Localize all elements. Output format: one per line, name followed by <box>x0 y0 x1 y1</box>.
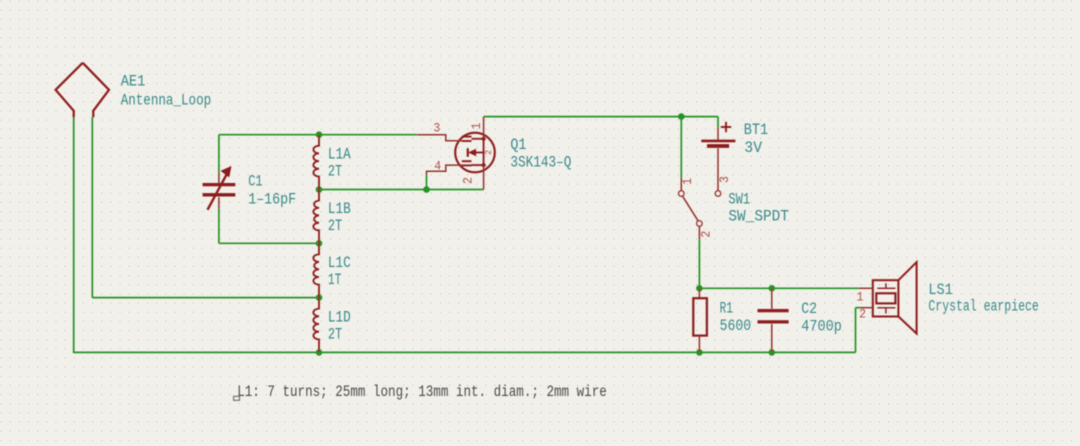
inductor L1B <box>313 190 319 244</box>
capacitor C2 <box>758 288 789 352</box>
svg-text:2: 2 <box>462 177 476 184</box>
resistor R1 <box>693 288 707 352</box>
wire Q1 drain top rail to battery <box>484 116 718 118</box>
svg-text:2T: 2T <box>328 325 342 343</box>
wire switch pin2 to output node <box>698 240 700 289</box>
pin 1 drain <box>483 117 485 139</box>
junction L1C-L1D tap <box>316 294 323 301</box>
junction top rail / L1A <box>316 131 323 138</box>
antenna AE1 <box>56 63 109 117</box>
svg-text:2T: 2T <box>328 162 342 180</box>
svg-text:4700p: 4700p <box>801 317 842 335</box>
wire L1A/L1B tap to Q1 source <box>319 189 484 191</box>
svg-text:Crystal earpiece: Crystal earpiece <box>928 298 1038 316</box>
wire C1 bottom to L1B/L1C tap <box>219 242 319 244</box>
wire bottom rail <box>73 351 856 353</box>
wire LS1 pin2 stub <box>856 307 861 309</box>
wire output node to LS1 pin1 <box>699 287 859 289</box>
svg-text:2: 2 <box>699 231 713 238</box>
inductor L1D <box>313 298 319 353</box>
svg-text:3: 3 <box>718 176 732 183</box>
svg-text:L1B: L1B <box>328 200 351 218</box>
svg-text:2T: 2T <box>328 217 342 235</box>
svg-text:3V: 3V <box>744 139 763 157</box>
svg-text:L1: 7 turns; 25mm long; 13mm i: L1: 7 turns; 25mm long; 13mm int. diam.;… <box>237 383 607 401</box>
svg-text:L1D: L1D <box>328 308 351 326</box>
svg-text:LS1: LS1 <box>928 281 952 299</box>
wire right lead to L1C/L1D tap <box>92 297 319 299</box>
switch SW1 <box>679 178 721 240</box>
junction output / R1 <box>696 285 703 292</box>
svg-text:BT1: BT1 <box>744 121 768 139</box>
wire antenna right lead down <box>91 117 93 298</box>
svg-text:2: 2 <box>483 150 494 155</box>
svg-text:L1A: L1A <box>328 145 351 163</box>
svg-text:4: 4 <box>434 160 441 174</box>
svg-text:1: 1 <box>470 123 484 130</box>
junction C2 bottom <box>769 349 776 356</box>
transistor Q1 body <box>455 133 495 173</box>
pin 1 <box>859 287 873 289</box>
junction L1D bottom <box>316 349 323 356</box>
inductor L1A <box>313 135 319 190</box>
pin 2 <box>860 307 873 309</box>
wire LS1 pin2 drop <box>855 308 857 353</box>
junction switch branch <box>678 113 685 120</box>
junction L1B-L1C tap <box>316 240 323 247</box>
svg-text:3SK143–Q: 3SK143–Q <box>510 154 571 172</box>
inductor L1C <box>313 243 319 297</box>
junction C2 top <box>769 285 776 292</box>
svg-text:L1C: L1C <box>328 254 351 272</box>
battery BT1 <box>701 117 735 191</box>
svg-text:C2: C2 <box>801 300 817 318</box>
svg-text:1T: 1T <box>328 271 342 289</box>
svg-text:5600: 5600 <box>720 317 752 335</box>
svg-text:C1: C1 <box>248 172 262 190</box>
svg-text:3: 3 <box>433 122 440 136</box>
svg-text:1: 1 <box>857 291 864 305</box>
wire C1 bottom branch <box>218 209 220 244</box>
svg-text:R1: R1 <box>720 300 733 318</box>
capacitor C1 <box>203 167 236 210</box>
junction L1A-L1B tap <box>316 186 323 193</box>
pin 3 gate2 <box>417 135 462 141</box>
svg-text:AE1: AE1 <box>121 73 146 91</box>
pin 2 source <box>483 165 485 189</box>
speaker LS1 <box>873 262 917 334</box>
junction gate1 branch <box>423 186 430 193</box>
svg-text:2: 2 <box>859 307 866 321</box>
pin 4 gate1 <box>427 165 462 175</box>
svg-text:Antenna_Loop: Antenna_Loop <box>121 91 212 109</box>
svg-text:SW_SPDT: SW_SPDT <box>728 208 789 226</box>
wire C1 top branch <box>218 135 220 172</box>
svg-text:1–16pF: 1–16pF <box>248 191 296 209</box>
wire antenna left lead down <box>73 117 75 352</box>
svg-text:Q1: Q1 <box>510 136 526 154</box>
svg-text:1: 1 <box>681 178 695 185</box>
junction R1 bottom <box>696 349 703 356</box>
wire gate1 riser <box>426 175 428 190</box>
note anchor square <box>234 396 240 400</box>
svg-text:SW1: SW1 <box>728 191 750 209</box>
wire switch pin1 drop <box>680 117 682 178</box>
wire top rail C1 to Q1 gate2 <box>219 134 417 136</box>
